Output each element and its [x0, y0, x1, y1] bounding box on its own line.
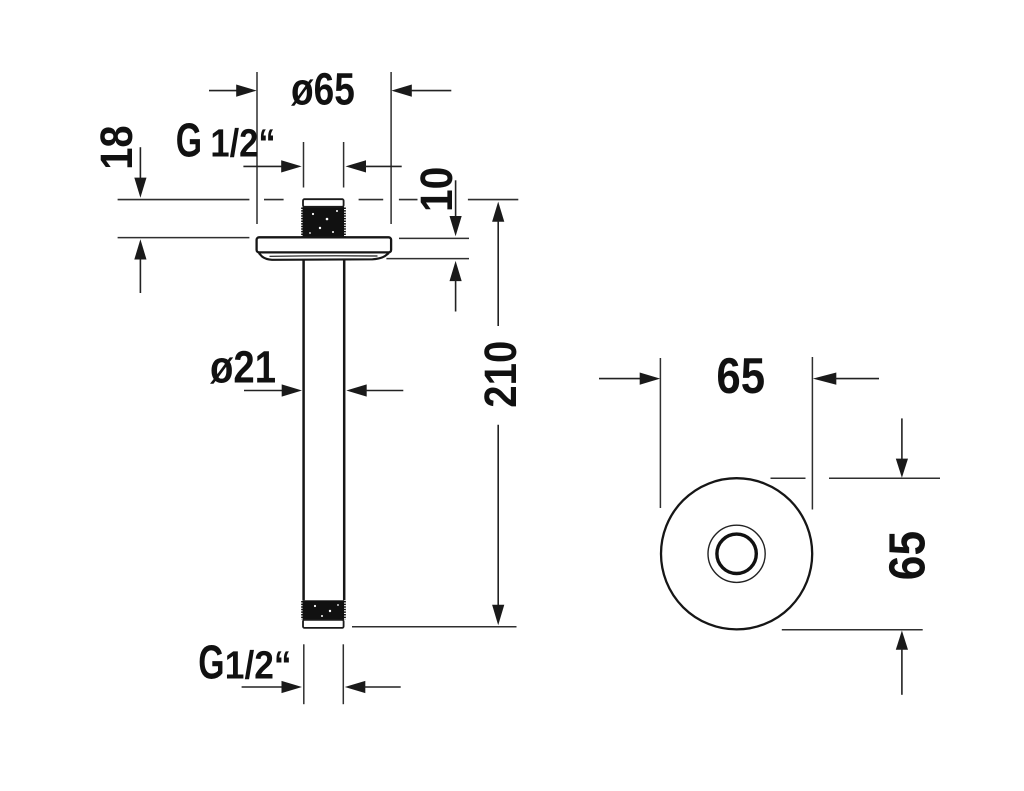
svg-text:ø65: ø65	[291, 64, 355, 115]
svg-text:G: G	[198, 637, 224, 690]
svg-text:1/2“: 1/2“	[210, 122, 275, 166]
svg-text:ø21: ø21	[210, 342, 276, 393]
svg-text:65: 65	[716, 347, 765, 404]
svg-text:65: 65	[878, 531, 935, 580]
svg-text:18: 18	[91, 125, 142, 169]
svg-text:1/2“: 1/2“	[225, 644, 292, 688]
svg-text:10: 10	[411, 167, 462, 212]
svg-text:G: G	[176, 114, 202, 167]
svg-text:210: 210	[475, 341, 526, 408]
